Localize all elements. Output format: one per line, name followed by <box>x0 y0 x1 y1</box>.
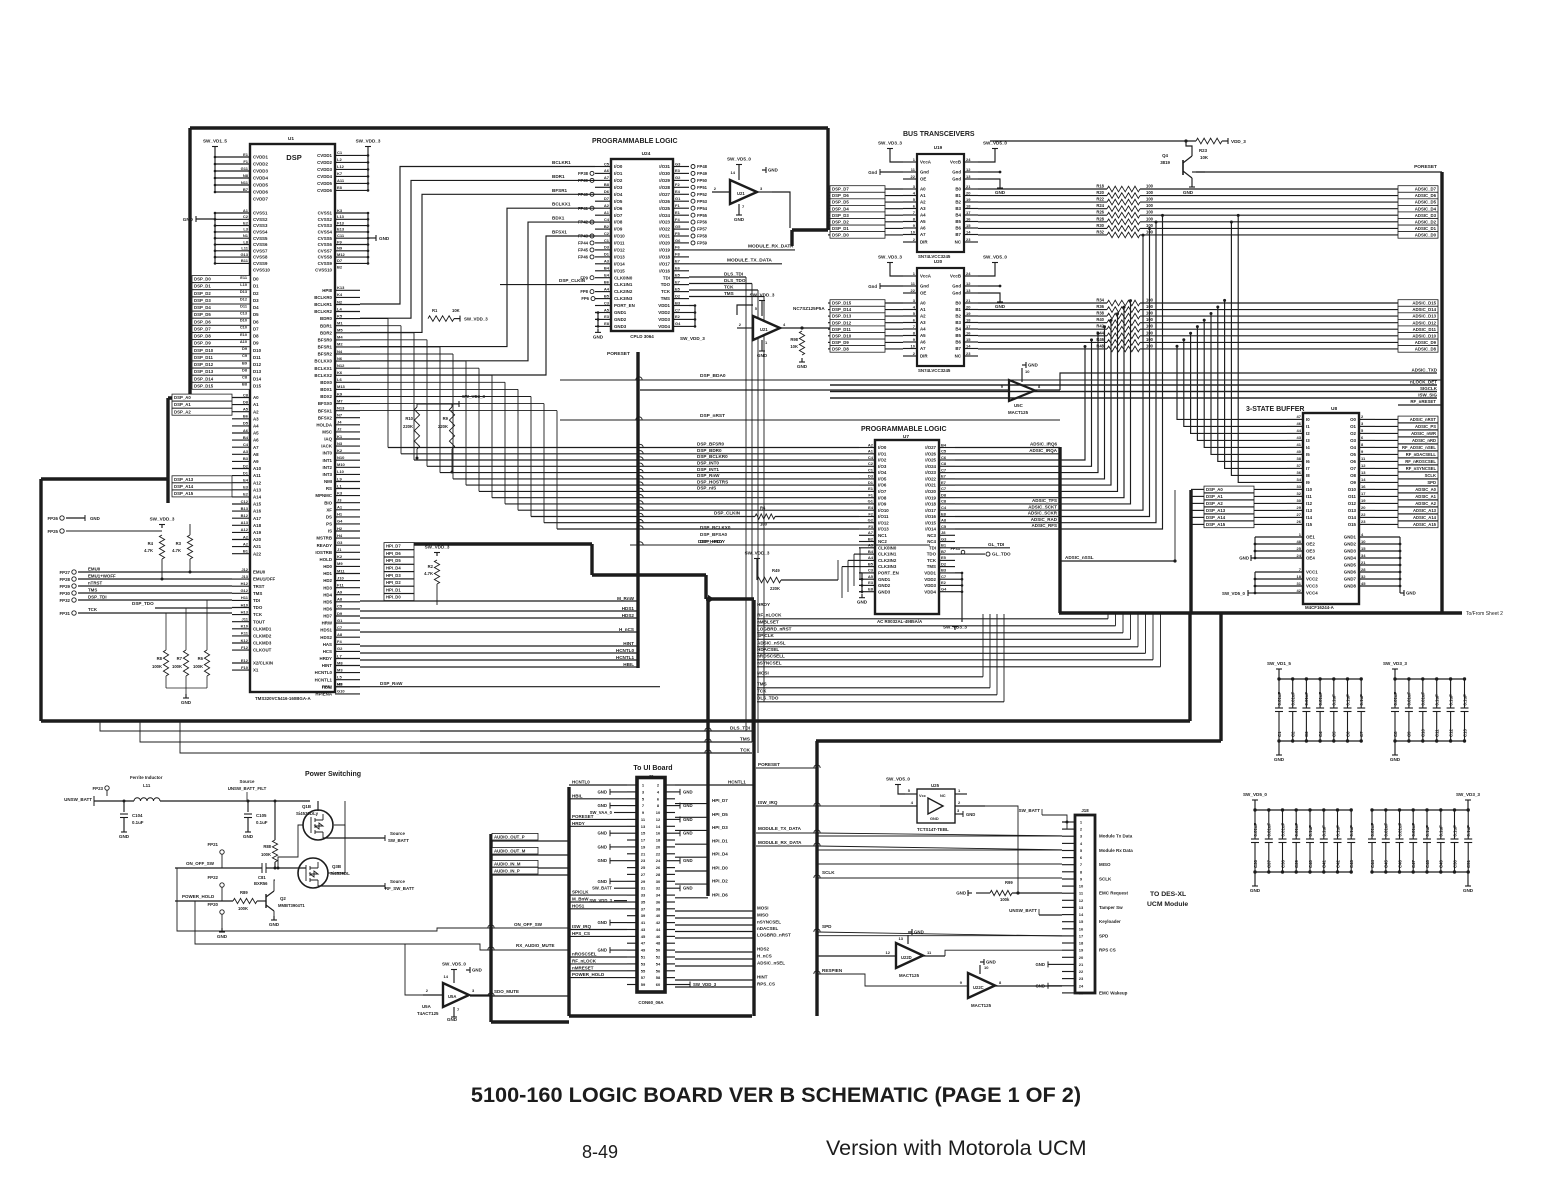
svg-text:I/O25: I/O25 <box>925 458 936 463</box>
svg-text:CLK3IN3: CLK3IN3 <box>614 296 633 301</box>
svg-text:VCC4: VCC4 <box>1306 591 1318 596</box>
svg-text:0.01uF: 0.01uF <box>1277 692 1282 706</box>
svg-text:MACT125: MACT125 <box>971 1003 992 1008</box>
svg-text:23: 23 <box>1361 519 1366 524</box>
svg-text:A4: A4 <box>920 213 926 218</box>
svg-text:N10: N10 <box>337 455 345 460</box>
svg-text:HCNTL0: HCNTL0 <box>572 780 590 785</box>
svg-text:DSP_HOSTRS: DSP_HOSTRS <box>697 479 728 484</box>
svg-text:AUDIO_IN_P: AUDIO_IN_P <box>494 868 520 873</box>
svg-text:BCLKR2: BCLKR2 <box>314 309 332 314</box>
svg-text:18: 18 <box>656 838 661 843</box>
svg-text:R32: R32 <box>1096 229 1104 234</box>
svg-text:HDS2: HDS2 <box>757 947 770 952</box>
svg-text:I3: I3 <box>1306 438 1310 443</box>
svg-text:HCS: HCS <box>323 649 332 654</box>
svg-text:GND: GND <box>1028 363 1038 368</box>
svg-text:G3: G3 <box>337 540 343 545</box>
svg-text:10: 10 <box>656 810 661 815</box>
svg-text:DSP: DSP <box>286 153 301 162</box>
svg-text:A12: A12 <box>241 527 249 532</box>
svg-text:35: 35 <box>641 900 646 905</box>
svg-text:I12: I12 <box>1306 501 1313 506</box>
svg-text:3-STATE BUFFER: 3-STATE BUFFER <box>1246 406 1304 413</box>
svg-text:B3: B3 <box>675 300 681 305</box>
svg-text:D6: D6 <box>604 189 610 194</box>
svg-text:100: 100 <box>1146 203 1154 208</box>
svg-text:100K: 100K <box>152 664 162 669</box>
svg-text:A6: A6 <box>253 438 259 443</box>
svg-text:CVSS5: CVSS5 <box>253 236 268 241</box>
svg-text:10: 10 <box>984 965 989 970</box>
svg-text:A5: A5 <box>604 307 610 312</box>
svg-text:48: 48 <box>1297 539 1302 544</box>
svg-text:A8: A8 <box>337 632 343 637</box>
svg-text:DSP_A15: DSP_A15 <box>1206 522 1226 527</box>
svg-text:C8: C8 <box>242 375 248 380</box>
svg-text:HD2: HD2 <box>323 578 332 583</box>
svg-text:B2: B2 <box>604 224 610 229</box>
svg-text:25: 25 <box>1297 546 1302 551</box>
svg-text:ADSIC_PS: ADSIC_PS <box>1415 424 1436 429</box>
svg-text:ADSIC_D0: ADSIC_D0 <box>1415 233 1437 238</box>
svg-text:BDX1: BDX1 <box>552 216 565 221</box>
svg-text:MOSI: MOSI <box>757 671 769 676</box>
svg-text:Q2: Q2 <box>280 896 286 901</box>
svg-text:25: 25 <box>1079 990 1084 995</box>
svg-text:NC7SZ125P5A: NC7SZ125P5A <box>793 306 825 311</box>
svg-text:HOLD: HOLD <box>320 557 332 562</box>
svg-text:53: 53 <box>641 961 646 966</box>
svg-text:INT0: INT0 <box>322 451 332 456</box>
svg-text:Power Switching: Power Switching <box>305 771 361 778</box>
svg-text:GL_TDO: GL_TDO <box>992 552 1011 557</box>
svg-text:R8: R8 <box>157 656 163 661</box>
svg-text:GND3: GND3 <box>614 324 627 329</box>
svg-text:PS: PS <box>326 522 332 527</box>
svg-text:K4: K4 <box>337 292 343 297</box>
svg-text:13: 13 <box>966 288 971 293</box>
svg-text:K1: K1 <box>337 434 343 439</box>
svg-text:GND: GND <box>447 1017 458 1022</box>
svg-text:DSP_RnW: DSP_RnW <box>697 473 720 478</box>
svg-text:RS: RS <box>326 486 332 491</box>
svg-text:D15: D15 <box>253 383 262 388</box>
svg-text:ADSIC_nRST: ADSIC_nRST <box>1410 417 1437 422</box>
svg-text:220K: 220K <box>438 424 448 429</box>
svg-text:ADSIC_SCKR: ADSIC_SCKR <box>1028 511 1058 516</box>
svg-text:A5: A5 <box>253 431 259 436</box>
svg-text:0.01uF: 0.01uF <box>1267 823 1272 837</box>
svg-text:HDS2: HDS2 <box>320 635 332 640</box>
svg-text:BDR1: BDR1 <box>552 174 565 179</box>
svg-text:D2: D2 <box>675 293 681 298</box>
svg-text:14: 14 <box>444 974 449 979</box>
svg-text:ISW_IRQ: ISW_IRQ <box>758 800 778 805</box>
svg-text:TDI: TDI <box>929 545 936 550</box>
svg-text:DSP_D13: DSP_D13 <box>194 369 214 374</box>
svg-text:SW_VD1_5: SW_VD1_5 <box>203 139 227 144</box>
svg-text:24: 24 <box>1297 553 1302 558</box>
svg-text:A20: A20 <box>253 537 262 542</box>
svg-text:DSP_TDO: DSP_TDO <box>132 601 154 606</box>
svg-text:VCC2: VCC2 <box>1306 577 1318 582</box>
svg-text:CVSS1: CVSS1 <box>318 211 333 216</box>
svg-text:SPD: SPD <box>1099 933 1109 938</box>
svg-text:10: 10 <box>1079 884 1084 889</box>
svg-text:D13: D13 <box>253 369 262 374</box>
svg-text:J18: J18 <box>1081 808 1089 813</box>
svg-text:L10: L10 <box>337 469 345 474</box>
svg-text:C81: C81 <box>258 875 266 880</box>
svg-text:M9: M9 <box>337 561 343 566</box>
svg-text:C47: C47 <box>1411 860 1416 868</box>
svg-text:C12: C12 <box>241 499 249 504</box>
svg-text:H4: H4 <box>337 533 343 538</box>
svg-text:UNSW_BATT: UNSW_BATT <box>64 797 92 802</box>
svg-text:E1: E1 <box>243 152 249 157</box>
svg-text:FP53: FP53 <box>697 199 708 204</box>
svg-text:VCC3: VCC3 <box>1306 584 1318 589</box>
svg-text:SW_VDD_3: SW_VDD_3 <box>693 982 717 987</box>
svg-text:GND: GND <box>1390 757 1401 762</box>
svg-text:READY: READY <box>317 543 332 548</box>
svg-text:C12: C12 <box>1448 729 1453 737</box>
svg-text:100K: 100K <box>172 664 182 669</box>
svg-text:N1: N1 <box>243 233 249 238</box>
svg-text:GND: GND <box>597 858 607 863</box>
svg-text:M5: M5 <box>337 328 343 333</box>
svg-text:E1: E1 <box>868 486 874 491</box>
svg-text:F11: F11 <box>337 583 344 588</box>
svg-text:C7: C7 <box>941 486 947 491</box>
svg-text:I/O15: I/O15 <box>925 520 936 525</box>
svg-text:I/O25: I/O25 <box>659 206 670 211</box>
svg-text:AC R0032AL-4985A/A: AC R0032AL-4985A/A <box>877 619 923 624</box>
svg-text:14: 14 <box>966 229 971 234</box>
svg-text:I/O3: I/O3 <box>614 185 623 190</box>
svg-text:HCNTL1: HCNTL1 <box>315 677 333 682</box>
svg-text:K3: K3 <box>337 490 343 495</box>
svg-text:M11: M11 <box>337 568 345 573</box>
svg-text:D1: D1 <box>253 284 259 289</box>
svg-text:CLK1IN1: CLK1IN1 <box>614 282 633 287</box>
svg-text:D1: D1 <box>868 480 874 485</box>
svg-text:40: 40 <box>1297 449 1302 454</box>
svg-text:28: 28 <box>1361 567 1366 572</box>
svg-text:HCNTL0: HCNTL0 <box>315 670 333 675</box>
svg-text:26: 26 <box>1297 519 1302 524</box>
svg-text:N3: N3 <box>337 441 343 446</box>
svg-text:20: 20 <box>656 844 661 849</box>
svg-text:I/O5: I/O5 <box>878 477 887 482</box>
svg-text:F2: F2 <box>868 511 873 516</box>
svg-text:I/O27: I/O27 <box>659 192 670 197</box>
svg-text:R99: R99 <box>1005 880 1013 885</box>
svg-text:BFSX2: BFSX2 <box>318 415 333 420</box>
svg-text:IACK: IACK <box>321 444 333 449</box>
svg-text:C1: C1 <box>337 150 343 155</box>
svg-text:50: 50 <box>656 948 661 953</box>
svg-text:0.1uF: 0.1uF <box>1308 825 1313 837</box>
svg-text:C40: C40 <box>1308 860 1313 868</box>
svg-text:MODULE_RX_DATA: MODULE_RX_DATA <box>758 840 802 845</box>
svg-text:HD6: HD6 <box>323 607 332 612</box>
svg-text:HRDY: HRDY <box>320 656 333 661</box>
svg-text:I/O11: I/O11 <box>878 514 889 519</box>
svg-text:TMS: TMS <box>927 564 936 569</box>
svg-text:GND: GND <box>597 948 607 953</box>
svg-text:HPI_D5: HPI_D5 <box>712 812 728 817</box>
svg-text:J3: J3 <box>337 498 342 503</box>
svg-text:E4: E4 <box>675 189 681 194</box>
svg-text:DSP_D2: DSP_D2 <box>194 291 211 296</box>
svg-text:12: 12 <box>1079 898 1084 903</box>
svg-text:DSP_A14: DSP_A14 <box>174 484 194 489</box>
svg-text:C51: C51 <box>1466 860 1471 868</box>
svg-text:N4: N4 <box>337 349 343 354</box>
svg-text:SDO_MUTE: SDO_MUTE <box>494 989 519 994</box>
svg-text:CLKMD2: CLKMD2 <box>253 634 272 639</box>
svg-text:C105: C105 <box>256 813 267 818</box>
svg-text:0.01uF: 0.01uF <box>1421 692 1426 706</box>
svg-text:31: 31 <box>1297 581 1302 586</box>
svg-text:A1: A1 <box>337 505 343 510</box>
svg-text:48: 48 <box>656 941 661 946</box>
svg-text:3819: 3819 <box>1160 160 1170 165</box>
svg-text:CLKMD3: CLKMD3 <box>253 641 272 646</box>
svg-text:G12: G12 <box>240 588 248 593</box>
svg-text:C2: C2 <box>1291 731 1296 737</box>
svg-text:12: 12 <box>656 817 661 822</box>
svg-text:ADSIC_nWR: ADSIC_nWR <box>1411 431 1436 436</box>
svg-text:VDD3: VDD3 <box>658 317 670 322</box>
svg-text:HCNTL0: HCNTL0 <box>616 648 635 653</box>
svg-text:GND: GND <box>1239 556 1249 561</box>
svg-text:I/O11: I/O11 <box>614 241 625 246</box>
svg-text:O10: O10 <box>1348 487 1357 492</box>
svg-text:C13: C13 <box>240 311 248 316</box>
svg-text:TRST: TRST <box>253 584 265 589</box>
svg-text:C48: C48 <box>1425 860 1430 868</box>
svg-text:A7: A7 <box>604 175 610 180</box>
svg-text:RPS CS: RPS CS <box>1099 948 1116 953</box>
svg-text:ADSIC_nSSL: ADSIC_nSSL <box>1065 555 1094 560</box>
svg-text:X1: X1 <box>253 668 259 673</box>
svg-text:O3: O3 <box>1350 438 1356 443</box>
svg-text:I5: I5 <box>1306 452 1310 457</box>
svg-text:DSP_BFSA0: DSP_BFSA0 <box>700 532 728 537</box>
svg-text:C8: C8 <box>1393 731 1398 737</box>
svg-text:10K: 10K <box>790 344 798 349</box>
svg-text:PORESET: PORESET <box>1414 164 1437 170</box>
svg-text:I15: I15 <box>1306 522 1313 527</box>
svg-text:SW_VDD_3: SW_VDD_3 <box>589 898 612 903</box>
svg-text:B2: B2 <box>955 200 961 205</box>
svg-text:SW_VD3_3: SW_VD3_3 <box>878 255 902 260</box>
svg-text:N2: N2 <box>337 299 343 304</box>
svg-text:D3: D3 <box>604 245 610 250</box>
svg-text:C10: C10 <box>1421 729 1426 737</box>
svg-text:A5: A5 <box>243 407 249 412</box>
svg-text:A13: A13 <box>253 487 262 492</box>
svg-text:EMU1/OFF: EMU1/OFF <box>253 577 276 582</box>
svg-text:OE2: OE2 <box>1306 542 1315 547</box>
svg-text:18: 18 <box>1079 941 1084 946</box>
svg-text:CVDD3: CVDD3 <box>253 169 268 174</box>
svg-text:B4: B4 <box>955 327 961 332</box>
svg-text:42: 42 <box>1297 588 1302 593</box>
svg-text:K5: K5 <box>337 313 343 318</box>
svg-text:nSYNCSEL: nSYNCSEL <box>757 661 782 666</box>
svg-text:SW_VDD_3: SW_VDD_3 <box>464 317 488 322</box>
svg-text:OE3: OE3 <box>1306 549 1315 554</box>
svg-text:E5: E5 <box>941 555 947 560</box>
svg-text:SW_VD3_3: SW_VD3_3 <box>1456 792 1480 797</box>
svg-text:10: 10 <box>911 229 916 234</box>
svg-text:L10: L10 <box>240 282 247 287</box>
svg-text:34: 34 <box>1361 553 1366 558</box>
svg-text:0.1uF: 0.1uF <box>1349 825 1354 837</box>
svg-text:GND3: GND3 <box>1344 549 1357 554</box>
svg-text:E3: E3 <box>243 485 249 490</box>
svg-text:SCLK: SCLK <box>822 870 835 875</box>
svg-text:BDX1: BDX1 <box>320 387 332 392</box>
svg-text:A3: A3 <box>604 259 610 264</box>
svg-text:D8: D8 <box>253 334 259 339</box>
svg-text:BFSX0: BFSX0 <box>318 401 333 406</box>
svg-text:ADSIC_A2: ADSIC_A2 <box>1415 501 1436 506</box>
svg-text:Gnd: Gnd <box>952 177 961 182</box>
svg-text:GND: GND <box>930 816 939 821</box>
svg-text:A14: A14 <box>253 495 262 500</box>
svg-text:ADSIC_IRQ6: ADSIC_IRQ6 <box>1030 442 1058 447</box>
svg-text:I/O23: I/O23 <box>925 470 936 475</box>
svg-text:42: 42 <box>656 920 661 925</box>
svg-text:A0: A0 <box>920 301 926 306</box>
svg-text:26: 26 <box>656 865 661 870</box>
svg-text:HPI_D2: HPI_D2 <box>712 879 728 884</box>
svg-text:A17: A17 <box>253 516 262 521</box>
svg-text:B3: B3 <box>955 320 961 325</box>
svg-text:RF_nLOCK: RF_nLOCK <box>572 958 597 963</box>
svg-text:A9: A9 <box>337 590 343 595</box>
svg-text:GND2: GND2 <box>1344 542 1357 547</box>
svg-text:D11: D11 <box>253 355 261 360</box>
svg-text:I/O13: I/O13 <box>614 255 625 260</box>
svg-text:R3: R3 <box>176 541 182 546</box>
svg-text:R22: R22 <box>1096 197 1104 202</box>
svg-text:C9: C9 <box>242 353 248 358</box>
svg-text:G2: G2 <box>337 646 343 651</box>
svg-text:100: 100 <box>1146 190 1154 195</box>
svg-text:I/O1: I/O1 <box>878 451 887 456</box>
svg-text:Version with Motorola UCM: Version with Motorola UCM <box>826 1136 1086 1160</box>
svg-text:SPICLK: SPICLK <box>572 890 589 895</box>
svg-text:DSP_A13: DSP_A13 <box>174 477 194 482</box>
svg-text:M3: M3 <box>337 667 343 672</box>
svg-text:F9: F9 <box>337 239 342 244</box>
svg-text:Gnd: Gnd <box>920 284 929 289</box>
svg-text:0.01uF: 0.01uF <box>1294 823 1299 837</box>
svg-text:10: 10 <box>1361 539 1366 544</box>
svg-text:0.01uF: 0.01uF <box>1291 692 1296 706</box>
svg-text:B5: B5 <box>868 561 874 566</box>
svg-text:TCK: TCK <box>724 285 734 290</box>
svg-text:CVSS4: CVSS4 <box>318 230 333 235</box>
svg-text:I/O16: I/O16 <box>925 514 936 519</box>
svg-text:N13: N13 <box>337 406 345 411</box>
svg-text:GND: GND <box>1463 888 1474 893</box>
svg-text:SW_VD3_3: SW_VD3_3 <box>462 394 485 399</box>
svg-text:I/O0: I/O0 <box>878 445 887 450</box>
svg-text:B7: B7 <box>955 232 961 237</box>
svg-text:FP32: FP32 <box>60 598 71 603</box>
svg-text:GND: GND <box>1274 757 1285 762</box>
svg-text:30: 30 <box>1297 498 1302 503</box>
svg-text:TCK: TCK <box>661 289 671 294</box>
svg-text:A13: A13 <box>241 520 249 525</box>
svg-text:O4: O4 <box>1350 445 1356 450</box>
svg-text:H1: H1 <box>337 512 343 517</box>
svg-text:CLK0IN0: CLK0IN0 <box>614 275 633 280</box>
svg-text:G1: G1 <box>868 499 874 504</box>
svg-text:FP54: FP54 <box>697 206 708 211</box>
svg-text:A3: A3 <box>920 206 926 211</box>
svg-text:HPI_D0: HPI_D0 <box>712 866 728 871</box>
svg-text:R28: R28 <box>1096 216 1104 221</box>
svg-text:D1: D1 <box>243 470 249 475</box>
svg-text:Keyloader: Keyloader <box>1099 919 1121 924</box>
svg-text:GND: GND <box>734 217 745 222</box>
svg-text:C36: C36 <box>1253 860 1258 868</box>
svg-text:D12: D12 <box>253 362 262 367</box>
svg-text:U19: U19 <box>934 145 943 150</box>
svg-text:D6: D6 <box>253 319 259 324</box>
svg-text:TO DES-XL: TO DES-XL <box>1150 891 1186 898</box>
svg-text:A12: A12 <box>253 480 262 485</box>
svg-text:I/O4: I/O4 <box>878 470 887 475</box>
svg-text:0.1uF: 0.1uF <box>1448 694 1453 706</box>
svg-text:ADSIC_D4: ADSIC_D4 <box>1415 206 1437 211</box>
svg-text:ADSIC_D13: ADSIC_D13 <box>1412 314 1436 319</box>
svg-text:E12: E12 <box>241 658 249 663</box>
svg-text:D13: D13 <box>240 289 248 294</box>
svg-text:B1: B1 <box>941 543 947 548</box>
svg-text:I/O12: I/O12 <box>878 520 889 525</box>
svg-text:NC4: NC4 <box>927 539 936 544</box>
svg-text:HD3: HD3 <box>323 585 332 590</box>
svg-text:CLK1IN1: CLK1IN1 <box>878 552 897 557</box>
svg-text:SCLK: SCLK <box>1425 473 1436 478</box>
svg-text:EMU0: EMU0 <box>88 567 101 572</box>
svg-text:A2: A2 <box>243 541 249 546</box>
svg-text:A1: A1 <box>243 208 249 213</box>
svg-text:I/O1: I/O1 <box>614 171 623 176</box>
svg-text:CVSS3: CVSS3 <box>253 223 268 228</box>
svg-text:A1: A1 <box>920 307 926 312</box>
svg-text:58: 58 <box>656 975 661 980</box>
svg-text:SW_VD3_3: SW_VD3_3 <box>1383 661 1407 666</box>
svg-text:I/O2: I/O2 <box>614 178 623 183</box>
svg-text:0.1uF: 0.1uF <box>1439 825 1444 837</box>
svg-text:F12: F12 <box>241 645 249 650</box>
svg-text:TCK: TCK <box>88 607 98 612</box>
svg-text:21: 21 <box>641 851 646 856</box>
svg-text:CVSS2: CVSS2 <box>253 217 268 222</box>
svg-text:R9: R9 <box>443 416 449 421</box>
svg-text:B7: B7 <box>955 346 961 351</box>
